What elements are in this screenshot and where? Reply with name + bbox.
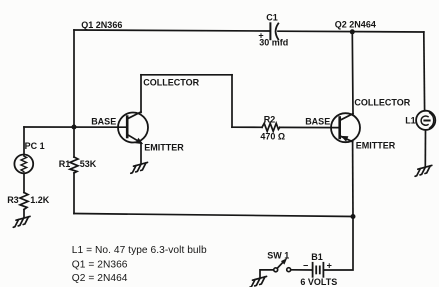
svg-text:B1: B1 (311, 252, 323, 262)
svg-text:Q2 = 2N464: Q2 = 2N464 (72, 273, 128, 284)
svg-text:COLLECTOR: COLLECTOR (354, 98, 410, 108)
wire: R2 right lead to Q2 base bar (280, 126, 340, 128)
wire: switch left lead to ground stub (260, 270, 274, 278)
wire: switch right circle to battery (291, 269, 312, 271)
lamp L1 (416, 111, 435, 130)
junction node at bottom rail / battery (351, 214, 356, 219)
wire: left vertical drop from top rail to R1 top (73, 30, 75, 157)
svg-text:+: + (327, 260, 332, 270)
svg-text:C1: C1 (266, 12, 278, 22)
svg-text:EMITTER: EMITTER (356, 141, 396, 151)
svg-text:6 VOLTS: 6 VOLTS (300, 277, 337, 287)
svg-text:1.2K: 1.2K (30, 195, 50, 205)
svg-text:R1: R1 (59, 159, 71, 169)
wire: Q2 collector riser to top junction (351, 32, 354, 114)
ground at switch (250, 276, 267, 287)
transistor Q1 (118, 112, 148, 144)
svg-text:BASE: BASE (91, 116, 116, 126)
svg-text:470 Ω: 470 Ω (260, 131, 285, 141)
wire: left branch vertical to PC1 (23, 127, 25, 155)
ground below L1 (415, 165, 432, 176)
svg-text:53K: 53K (80, 159, 97, 169)
svg-text:EMITTER: EMITTER (144, 142, 184, 152)
resistor R2 (262, 123, 280, 131)
wire: drop from collector run to R2 (231, 75, 233, 127)
transistor Q2 (331, 113, 360, 142)
wire: top rail right segment (C1 to top-right corner) (278, 30, 424, 33)
ground below Q1 emitter (131, 162, 148, 173)
wire: collector horizontal run to R2 drop (141, 74, 232, 76)
svg-text:SW 1: SW 1 (267, 250, 289, 260)
photocell PC1 (14, 155, 33, 174)
svg-text:30 mfd: 30 mfd (259, 38, 288, 48)
svg-text:BASE: BASE (305, 116, 330, 126)
wire: R2 left lead (232, 126, 262, 128)
svg-text:PC 1: PC 1 (25, 141, 45, 151)
wire: R3 to ground (23, 210, 25, 218)
wire: L1 bottom to ground (424, 130, 426, 167)
junction node at R1 / base rail (72, 125, 77, 130)
svg-text:−: − (303, 261, 308, 271)
wire: top-right corner down to L1 (423, 32, 426, 111)
wire: top rail left segment (Q1 collector node to C1) (74, 30, 270, 31)
wire: Q2 emitter drop to bottom junction (352, 142, 354, 217)
svg-text:Q1 = 2N366: Q1 = 2N366 (72, 259, 128, 270)
svg-text:Q2 2N464: Q2 2N464 (335, 19, 376, 29)
svg-text:L1 = No. 47 type 6.3-volt bulb: L1 = No. 47 type 6.3-volt bulb (72, 245, 207, 256)
svg-text:COLLECTOR: COLLECTOR (143, 78, 199, 88)
wire: Q1 collector riser (140, 75, 142, 113)
resistor R3 (20, 193, 28, 210)
ground below R3 (13, 216, 30, 227)
battery B1 (313, 263, 324, 277)
svg-text:R3: R3 (7, 195, 19, 205)
svg-text:R2: R2 (264, 114, 276, 124)
capacitor C1 (270, 23, 278, 39)
svg-text:Q1 2N366: Q1 2N366 (81, 20, 122, 30)
svg-text:L1: L1 (405, 116, 416, 126)
wire: bottom rail (74, 214, 353, 217)
wire: Q1 base rail (node A to Q1 base bar) (24, 126, 127, 128)
switch SW1 (274, 258, 291, 272)
wire: Q1 emitter to ground (140, 143, 142, 164)
wire: PC1 to R3 (23, 173, 25, 192)
wire: drop from bottom junction to battery lead (324, 217, 353, 271)
resistor R1 (70, 157, 78, 173)
junction node at Q2 collector / top rail (350, 29, 355, 34)
wire: R1 bottom to bottom rail corner (73, 173, 75, 214)
